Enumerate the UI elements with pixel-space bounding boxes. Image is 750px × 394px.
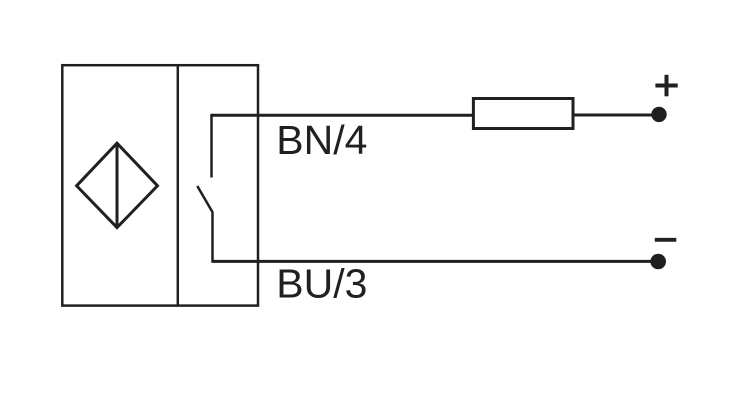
svg-text:BN/4: BN/4 [276,117,367,163]
svg-text:BU/3: BU/3 [276,261,367,307]
